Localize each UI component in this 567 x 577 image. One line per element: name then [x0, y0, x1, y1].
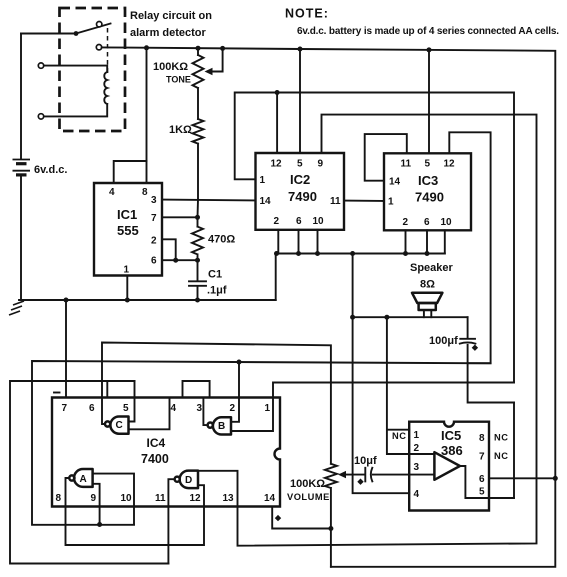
speaker LS1 cone — [412, 293, 442, 303]
svg-text:NC: NC — [392, 431, 406, 441]
wire ground bus right end riser to IC2/IC3 bottom bus — [275, 254, 277, 301]
IC2 7490 box — [256, 153, 345, 230]
svg-text:5: 5 — [123, 403, 129, 414]
svg-text:100KΩ: 100KΩ — [153, 61, 188, 73]
junction speaker drop / bus — [350, 251, 355, 256]
wire ground bus to IC4 pin7 — [65, 300, 67, 398]
wire V+ top bus from relay contact to right edge — [102, 47, 556, 566]
wire IC3 pin12 loop and drop to speaker net — [449, 132, 490, 363]
ground symbol — [9, 301, 24, 315]
wire left supply vertical (battery top to switch feed) — [20, 34, 22, 159]
relay coil K1 winding — [104, 72, 107, 104]
svg-text:3: 3 — [151, 195, 157, 206]
svg-text:6: 6 — [424, 217, 430, 228]
resistor R2 1K — [193, 119, 204, 200]
wire IC4 pin14 to volume pot line — [272, 507, 331, 529]
svg-text:VOLUME: VOLUME — [287, 492, 330, 502]
junction W2 / gate B drop — [237, 360, 242, 365]
junction speaker bus left — [350, 315, 355, 320]
svg-text:B: B — [218, 421, 225, 432]
svg-text:8: 8 — [142, 187, 148, 198]
svg-text:9: 9 — [318, 159, 324, 170]
relay coil K1 bottom lead — [44, 104, 107, 116]
wire IC2 pin9 loop to y114.6 bus, right drop, bottom run to IC4 pin13 — [198, 115, 537, 546]
junction IC1 pin1 / ground bus — [125, 298, 130, 303]
capacitor C1 .1uf plates — [189, 280, 206, 282]
svg-text:7: 7 — [479, 452, 485, 463]
svg-text:1: 1 — [265, 403, 271, 414]
svg-text:555: 555 — [117, 223, 139, 238]
wire drop to IC5 pins 1 and 2 — [387, 317, 409, 454]
ground bus wire — [19, 299, 276, 301]
junction top bus / tone pot wiper — [220, 46, 225, 51]
svg-text:6: 6 — [479, 474, 485, 485]
wire IC1 pin7 — [162, 216, 198, 218]
wire wiper to 10uf — [344, 474, 364, 476]
potentiometer R1 100K TONE body — [193, 48, 204, 119]
svg-text:IC5: IC5 — [441, 428, 461, 443]
wire right riser x513.5 from y402 down to IC5 pin5 row — [513, 403, 515, 499]
wire IC3 pin5 riser to V+ bus — [428, 50, 430, 153]
svg-text:470Ω: 470Ω — [208, 234, 235, 246]
wire IC1 pin2-pin6 loop — [162, 239, 176, 260]
wire IC3 pin10 riser — [444, 230, 446, 253]
svg-text:12: 12 — [271, 159, 283, 170]
svg-text:3: 3 — [197, 403, 203, 414]
wire drop to speaker bus and on to IC5 pin4 — [353, 254, 410, 494]
svg-text:1: 1 — [388, 197, 394, 208]
svg-text:100KΩ: 100KΩ — [290, 478, 325, 490]
svg-text:IC1: IC1 — [117, 207, 137, 222]
svg-text:A: A — [80, 474, 87, 485]
svg-text:6: 6 — [151, 256, 157, 267]
svg-text:9: 9 — [91, 493, 97, 504]
capacitor C2 plus mark — [357, 479, 363, 485]
IC1 555 box — [94, 183, 162, 276]
svg-text:1: 1 — [260, 175, 266, 186]
svg-text:10μf: 10μf — [354, 455, 377, 467]
wire 470 bottom to C1 — [197, 260, 199, 280]
wire gate C output W1 to volume pot top — [102, 343, 331, 464]
svg-text:11: 11 — [155, 493, 166, 504]
wire W3 leg at pin6-5 — [106, 381, 108, 398]
junction ground bus / IC4 pin7 drop — [64, 298, 69, 303]
wire IC1 pin4-pin8 loop — [114, 161, 147, 183]
potentiometer R4 100K VOLUME body — [325, 464, 337, 567]
capacitor C2 10uf plates — [364, 468, 366, 482]
svg-text:100μf: 100μf — [429, 335, 458, 347]
wire IC3 pin11-pin14 loop — [365, 134, 407, 181]
wire IC3 pin2 riser — [405, 230, 407, 253]
svg-text:Relay circuit on: Relay circuit on — [130, 10, 212, 22]
svg-text:IC2: IC2 — [290, 172, 310, 187]
svg-text:13: 13 — [223, 493, 235, 504]
svg-text:6: 6 — [296, 216, 302, 227]
junction IC2 pin12 / y93 bus — [275, 90, 280, 95]
minus mark above IC4 — [54, 392, 60, 394]
svg-text:8: 8 — [479, 433, 485, 444]
svg-text:NOTE:: NOTE: — [285, 7, 329, 21]
junction top bus / IC3 pin5 riser — [427, 47, 432, 52]
svg-text:2: 2 — [274, 216, 280, 227]
svg-text:2: 2 — [403, 217, 409, 228]
potentiometer R4 wiper arrowhead — [338, 471, 346, 478]
gate B bubble — [208, 423, 213, 428]
svg-text:14: 14 — [260, 196, 272, 207]
wire IC2 pin5 riser to V+ bus — [299, 49, 301, 153]
svg-text:1: 1 — [414, 430, 420, 441]
relay coil K1 top lead — [44, 66, 107, 72]
svg-text:10: 10 — [441, 217, 453, 228]
svg-text:C1: C1 — [208, 269, 222, 281]
junction right V+ drop / IC5 pin6 wire — [553, 476, 558, 481]
svg-text:2: 2 — [230, 403, 236, 414]
junction pin2 loop / pin6 wire — [173, 258, 178, 263]
capacitor C3 100uf plates — [460, 338, 475, 340]
junction bottom bus corner — [274, 251, 279, 256]
gate D bubble — [175, 477, 180, 482]
svg-text:2: 2 — [414, 443, 420, 454]
junction gate A input bottom / W2 run — [97, 522, 102, 527]
svg-text:11: 11 — [401, 159, 412, 170]
relay mechanical link (dashed) — [107, 28, 109, 73]
wire IC5 pin6 to V+ right drop — [489, 477, 555, 479]
svg-text:5: 5 — [425, 159, 431, 170]
battery B1 6v.d.c. plates — [13, 160, 31, 175]
junction C1/ground bus — [195, 298, 200, 303]
wire pin4-pin3 jumper loop — [183, 381, 210, 398]
svg-text:NC: NC — [494, 451, 508, 461]
svg-text:3: 3 — [414, 462, 420, 473]
switch lower contact — [96, 45, 101, 50]
resistor R3 470 — [192, 217, 203, 260]
wire C1 bottom to ground bus — [197, 287, 199, 301]
svg-text:6v.d.c.: 6v.d.c. — [34, 164, 67, 176]
svg-text:386: 386 — [441, 443, 463, 458]
svg-text:7400: 7400 — [141, 452, 169, 466]
gate A body — [74, 469, 93, 487]
wire gate C input top from W3 — [129, 381, 135, 422]
svg-text:IC4: IC4 — [147, 436, 166, 450]
IC5 386 box with top notch — [409, 422, 489, 511]
wire IC2 pin12 riser — [276, 93, 278, 154]
svg-text:6v.d.c. battery is made up of: 6v.d.c. battery is made up of 4 series c… — [297, 26, 559, 37]
wire gate A output pin8 to bus y545 to gate D input bottom — [66, 478, 205, 545]
wire gate D output to pin11 drop — [168, 479, 174, 563]
relay coil K1 terminal circle top — [38, 63, 43, 68]
junction top bus / IC1 pin8 riser — [144, 45, 149, 50]
switch arm SW1 — [76, 24, 111, 34]
wire gate A input top riser x134 — [93, 474, 134, 525]
svg-text:C: C — [116, 420, 123, 431]
speaker LS1 frame — [419, 303, 436, 310]
plus mark near pin14 — [275, 515, 281, 521]
junction R2/R3/IC1 pin7 — [195, 215, 200, 220]
wire gate B input bottom from pin1 / P1 run — [231, 383, 514, 432]
wire 10uf to IC5 pin3 — [373, 474, 409, 476]
relay dashed enclosure box — [60, 8, 126, 131]
gate C body — [110, 417, 128, 434]
wire IC1 pin8 riser to V+ bus — [146, 48, 148, 161]
junction speaker bus / IC5 pin1-2 drop — [384, 315, 389, 320]
relay coil K1 terminal circle bottom — [38, 114, 43, 119]
svg-text:10: 10 — [121, 493, 133, 504]
svg-text:7: 7 — [151, 213, 157, 224]
potentiometer R1 wiper arm — [209, 48, 223, 71]
wire C3 bottom through W2 crossing down to y402 then right — [468, 345, 514, 403]
svg-text:8Ω: 8Ω — [420, 279, 435, 291]
wire IC2 pin6 riser — [298, 230, 300, 254]
wire switch feed — [21, 33, 76, 35]
capacitor C3 100uf top lead — [467, 317, 469, 338]
gate B body — [213, 417, 231, 434]
wire IC2/IC3 bottom bus — [276, 253, 445, 255]
junction pin14 wire / pot line — [328, 526, 333, 531]
svg-text:7490: 7490 — [288, 189, 317, 204]
wire IC1 pin6 — [162, 259, 198, 261]
svg-text:11: 11 — [330, 196, 341, 207]
wire IC1 pin1 to ground — [126, 276, 128, 301]
junction IC3 pin6 / bus — [425, 251, 430, 256]
svg-text:12: 12 — [190, 493, 202, 504]
IC3 7490 box — [384, 153, 471, 230]
svg-text:10: 10 — [313, 216, 325, 227]
wire y93 bus with IC2 pin1 loop and right drop to IC4 pin1 net — [235, 93, 514, 383]
wire gate C input bottom from pin4 — [129, 398, 170, 430]
wire IC5 pin2 inside — [409, 453, 434, 455]
wire W3 left drop bus to gate D output — [10, 381, 168, 564]
wire IC2 pin2 riser — [277, 230, 279, 254]
junction IC3 pin2 / bus — [403, 251, 408, 256]
potentiometer R1 wiper arrowhead — [205, 68, 213, 75]
svg-text:14: 14 — [389, 177, 401, 188]
capacitor C3 plus mark — [472, 345, 478, 351]
svg-text:5: 5 — [479, 487, 485, 498]
svg-text:D: D — [185, 475, 192, 486]
svg-text:1KΩ: 1KΩ — [169, 124, 192, 136]
wire gate A input bottom drop — [93, 484, 100, 525]
svg-text:4: 4 — [171, 403, 177, 414]
junction IC2 pin6 / bus — [296, 251, 301, 256]
svg-text:7490: 7490 — [415, 190, 444, 205]
junction top bus / tone pot top — [196, 46, 201, 51]
junction top bus / IC2 pin5 riser — [298, 47, 303, 52]
svg-text:12: 12 — [444, 159, 456, 170]
speaker LS1 legs — [424, 310, 431, 317]
svg-text:TONE: TONE — [166, 75, 191, 85]
op-amp triangle U5 — [434, 452, 460, 480]
wire op-amp output to pin5 row and riser x513.5 — [460, 466, 514, 498]
wire left supply vertical (battery bottom to ground bus) — [20, 176, 22, 301]
svg-text:5: 5 — [297, 159, 303, 170]
svg-text:2: 2 — [151, 236, 157, 247]
svg-text:alarm detector: alarm detector — [130, 27, 207, 39]
wire IC2 pin11 to IC3 pin1 — [344, 200, 384, 202]
svg-text:4: 4 — [109, 187, 115, 198]
wire 1K bottom to pin7 junction — [197, 200, 200, 218]
wire IC2 pin10 riser — [317, 230, 319, 254]
wire gate B output to pin3 — [203, 398, 207, 426]
svg-text:7: 7 — [62, 403, 68, 414]
svg-text:4: 4 — [414, 489, 420, 500]
wire W2 long bus (gate A inputs net) — [32, 361, 491, 525]
junction switch pivot — [74, 31, 79, 36]
IC4 7400 box with right-edge notch — [52, 398, 280, 507]
svg-text:14: 14 — [264, 493, 276, 504]
wire IC5 pin3 inside — [409, 474, 434, 476]
switch upper contact — [97, 22, 102, 27]
svg-text:6: 6 — [89, 403, 95, 414]
gate C bubble — [105, 421, 110, 426]
svg-text:8: 8 — [56, 493, 62, 504]
svg-text:Speaker: Speaker — [410, 262, 454, 274]
svg-text:NC: NC — [494, 433, 508, 443]
wire IC1 pin3 to IC2 pin14 — [162, 199, 256, 202]
gate D body — [180, 471, 198, 489]
wire IC3 pin6 riser — [426, 230, 428, 253]
junction IC2 pin10 / bus — [315, 251, 320, 256]
junction 470 bottom / IC1 pin6 wire — [195, 258, 200, 263]
svg-text:.1μf: .1μf — [207, 285, 227, 297]
svg-text:1: 1 — [124, 265, 130, 276]
gate A bubble — [69, 475, 74, 480]
svg-text:IC3: IC3 — [418, 173, 438, 188]
wire speaker bus — [353, 316, 468, 318]
wire gate B input top from W2 — [231, 362, 239, 422]
